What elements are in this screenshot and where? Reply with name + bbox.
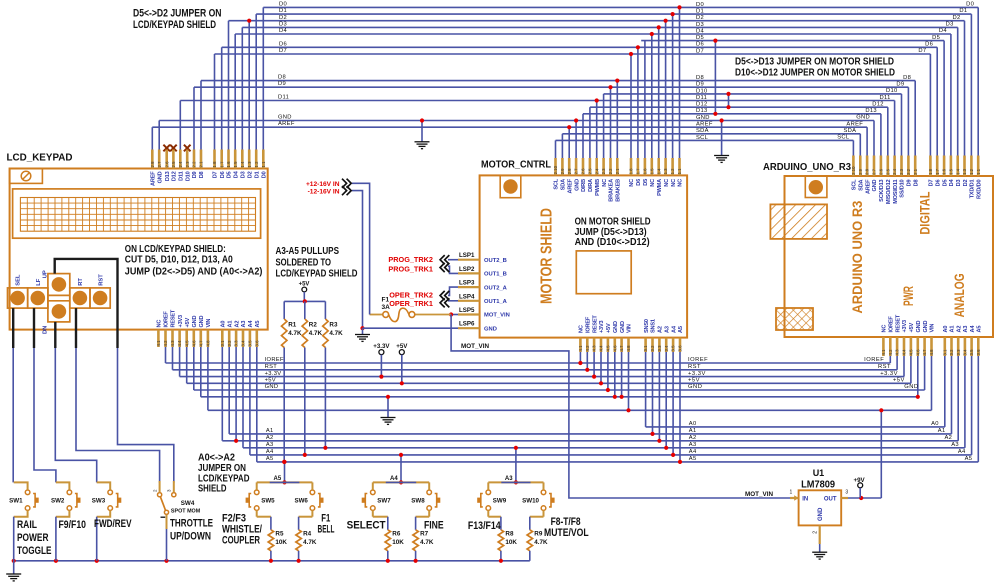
svg-text:RAIL: RAIL [17, 519, 37, 531]
svg-text:3.4: 3.4 [664, 345, 669, 352]
svg-text:OUT1_B: OUT1_B [484, 272, 507, 278]
svg-text:A4: A4 [970, 325, 976, 333]
svg-text:4.7: 4.7 [619, 345, 624, 352]
svg-text:3.4: 3.4 [241, 340, 246, 347]
svg-text:4.3: 4.3 [170, 340, 175, 347]
svg-text:RESET: RESET [895, 314, 901, 332]
svg-text:D3: D3 [956, 180, 962, 187]
svg-text:GND: GND [265, 384, 279, 390]
svg-text:GND: GND [278, 115, 292, 121]
svg-text:OUT: OUT [824, 496, 837, 502]
svg-text:3.2: 3.2 [227, 340, 232, 347]
svg-text:4.5: 4.5 [909, 349, 914, 356]
svg-text:1.1: 1.1 [976, 168, 981, 175]
svg-text:A1: A1 [938, 428, 946, 434]
svg-text:D10<->D12 JUMPER ON MOTOR SHIE: D10<->D12 JUMPER ON MOTOR SHIELD [735, 68, 895, 79]
svg-text:1.7: 1.7 [935, 168, 940, 175]
svg-text:SNS0: SNS0 [644, 319, 650, 333]
svg-text:2.8: 2.8 [865, 168, 870, 175]
svg-text:+3.3V: +3.3V [688, 371, 706, 377]
svg-text:3.3: 3.3 [234, 340, 239, 347]
svg-text:4.1: 4.1 [881, 349, 886, 356]
svg-text:4.3: 4.3 [895, 349, 900, 356]
svg-text:A5: A5 [977, 326, 983, 333]
svg-text:RESET: RESET [171, 309, 177, 327]
svg-text:D5: D5 [932, 35, 940, 41]
svg-text:THROTTLE: THROTTLE [170, 518, 213, 530]
svg-text:SCL: SCL [837, 135, 850, 141]
svg-text:IN: IN [802, 496, 808, 502]
svg-text:A5: A5 [678, 326, 684, 333]
svg-text:+5V: +5V [909, 323, 915, 333]
svg-text:4.7K: 4.7K [329, 330, 343, 337]
svg-text:4.2: 4.2 [585, 345, 590, 352]
svg-text:NC: NC [650, 179, 656, 187]
svg-text:D5: D5 [227, 171, 233, 178]
svg-text:1.8: 1.8 [928, 168, 933, 175]
svg-text:LF: LF [36, 278, 42, 286]
svg-text:+5V: +5V [688, 378, 700, 384]
svg-text:2.10: 2.10 [851, 166, 856, 175]
svg-text:2.8: 2.8 [567, 168, 572, 175]
svg-text:ON LCD/KEYPAD SHIELD:: ON LCD/KEYPAD SHIELD: [125, 244, 226, 255]
svg-text:NC: NC [882, 325, 888, 333]
svg-text:A3: A3 [664, 326, 670, 333]
svg-text:2.6: 2.6 [879, 168, 884, 175]
svg-text:2.5: 2.5 [885, 168, 890, 175]
svg-text:2.8: 2.8 [150, 161, 155, 168]
svg-text:+5V: +5V [185, 318, 191, 328]
svg-text:IOREF: IOREF [265, 357, 284, 363]
svg-text:2.6: 2.6 [164, 161, 169, 168]
svg-text:GND: GND [157, 171, 163, 183]
svg-text:2.2: 2.2 [192, 161, 197, 168]
svg-text:+3.3V: +3.3V [880, 371, 898, 377]
svg-text:BRAKEA: BRAKEA [609, 179, 615, 202]
svg-text:3.2: 3.2 [949, 349, 954, 356]
svg-text:A4: A4 [248, 320, 254, 328]
svg-text:D12: D12 [172, 171, 178, 181]
svg-text:1.3: 1.3 [247, 161, 252, 168]
svg-text:2.9: 2.9 [560, 168, 565, 175]
svg-text:LSP4: LSP4 [459, 293, 475, 300]
svg-text:A3: A3 [689, 442, 697, 448]
svg-text:3.5: 3.5 [671, 345, 676, 352]
svg-text:GND: GND [916, 321, 922, 333]
svg-text:MOT_VIN: MOT_VIN [461, 343, 489, 350]
svg-text:+5V: +5V [606, 323, 612, 333]
svg-text:1.5: 1.5 [233, 161, 238, 168]
svg-text:SW6: SW6 [294, 498, 308, 505]
svg-text:4.7: 4.7 [198, 340, 203, 347]
svg-text:GND: GND [696, 115, 710, 121]
svg-text:IOREF: IOREF [864, 357, 884, 363]
svg-text:RXD/D0: RXD/D0 [976, 180, 982, 199]
svg-text:A2: A2 [956, 326, 962, 333]
svg-text:A4: A4 [266, 449, 274, 455]
svg-text:D7: D7 [213, 171, 219, 178]
svg-text:1: 1 [790, 490, 793, 496]
svg-text:4.6: 4.6 [612, 345, 617, 352]
svg-text:LCD/KEYPAD SHIELD: LCD/KEYPAD SHIELD [276, 269, 358, 280]
svg-text:D2: D2 [952, 15, 960, 21]
svg-text:GND: GND [192, 316, 198, 328]
svg-text:D11: D11 [179, 171, 185, 180]
svg-text:2.7: 2.7 [157, 161, 162, 168]
svg-text:MOTOR SHIELD: MOTOR SHIELD [539, 208, 556, 304]
svg-text:A5: A5 [965, 456, 973, 462]
svg-text:D9: D9 [696, 82, 704, 88]
svg-text:3.6: 3.6 [254, 340, 259, 347]
svg-text:D2: D2 [963, 180, 969, 187]
svg-text:A3: A3 [241, 321, 247, 328]
svg-text:R5: R5 [275, 531, 284, 538]
svg-text:R1: R1 [288, 322, 297, 329]
svg-text:3.6: 3.6 [976, 349, 981, 356]
svg-text:4.5: 4.5 [184, 340, 189, 347]
svg-text:SDA: SDA [696, 128, 709, 134]
svg-text:OUT2_A: OUT2_A [484, 285, 508, 291]
svg-text:1.3: 1.3 [663, 168, 668, 175]
svg-text:FINE: FINE [424, 519, 444, 531]
svg-text:A0<->A2: A0<->A2 [198, 453, 235, 464]
svg-text:3.1: 3.1 [643, 345, 648, 352]
svg-text:D3: D3 [696, 22, 704, 28]
svg-text:4.1: 4.1 [156, 340, 161, 347]
svg-text:4.4: 4.4 [902, 349, 907, 356]
svg-text:JUMP (D2<->D5) AND (A0<->A2): JUMP (D2<->D5) AND (A0<->A2) [125, 266, 263, 277]
svg-text:2.3: 2.3 [899, 168, 904, 175]
svg-text:A0: A0 [221, 321, 227, 328]
svg-text:D8: D8 [199, 171, 205, 178]
svg-text:VIN: VIN [627, 324, 633, 333]
svg-text:D6: D6 [636, 179, 642, 186]
svg-text:SS/D10: SS/D10 [900, 180, 906, 198]
svg-text:D7: D7 [279, 48, 287, 54]
svg-text:BRAKEB: BRAKEB [616, 179, 622, 202]
svg-text:RST: RST [688, 364, 701, 370]
svg-text:4.7K: 4.7K [420, 539, 434, 546]
svg-text:1.1: 1.1 [677, 168, 682, 175]
svg-text:SW9: SW9 [493, 498, 507, 505]
svg-text:D11: D11 [278, 95, 289, 101]
svg-text:GND: GND [923, 321, 929, 333]
svg-text:A5: A5 [255, 321, 261, 328]
svg-text:OPER_TRK1: OPER_TRK1 [389, 299, 433, 308]
svg-text:BELL: BELL [318, 524, 335, 536]
svg-text:D3: D3 [946, 22, 954, 28]
svg-text:4.5: 4.5 [606, 345, 611, 352]
svg-text:3.3: 3.3 [657, 345, 662, 352]
svg-text:+5V: +5V [396, 343, 408, 350]
svg-text:D3: D3 [241, 171, 247, 178]
svg-text:GND: GND [856, 115, 870, 121]
svg-text:UP/DOWN: UP/DOWN [170, 531, 211, 543]
svg-text:PWMB: PWMB [595, 179, 601, 196]
svg-text:D12: D12 [696, 102, 708, 108]
svg-text:AREF: AREF [696, 122, 713, 128]
svg-text:2.9: 2.9 [858, 168, 863, 175]
svg-text:3.1: 3.1 [942, 349, 947, 356]
svg-text:D5<->D2 JUMPER ON: D5<->D2 JUMPER ON [133, 8, 222, 20]
svg-text:3.5: 3.5 [248, 340, 253, 347]
svg-text:DIGITAL: DIGITAL [917, 192, 932, 235]
svg-text:2.6: 2.6 [581, 168, 586, 175]
svg-text:PROG_TRK2: PROG_TRK2 [388, 255, 433, 264]
svg-text:D9: D9 [192, 171, 198, 178]
svg-text:SW5: SW5 [261, 498, 275, 505]
svg-text:D5<->D13 JUMPER ON MOTOR SHIEL: D5<->D13 JUMPER ON MOTOR SHIELD [735, 57, 894, 68]
svg-text:D2: D2 [279, 15, 287, 21]
svg-text:AREF: AREF [846, 121, 863, 127]
svg-text:AREF: AREF [278, 121, 295, 127]
svg-text:2.7: 2.7 [574, 168, 579, 175]
svg-text:1.8: 1.8 [629, 168, 634, 175]
svg-text:1.8: 1.8 [212, 161, 217, 168]
svg-text:SHIELD: SHIELD [198, 484, 227, 495]
svg-text:D5: D5 [942, 180, 948, 187]
svg-text:+9V: +9V [854, 477, 866, 484]
svg-text:D1: D1 [959, 8, 967, 14]
svg-text:2: 2 [813, 531, 819, 534]
svg-text:D1: D1 [279, 8, 287, 14]
svg-text:4.7K: 4.7K [534, 539, 548, 546]
svg-text:D3: D3 [279, 22, 287, 28]
svg-text:1.5: 1.5 [949, 168, 954, 175]
svg-text:RST: RST [98, 274, 104, 286]
svg-text:R6: R6 [392, 531, 401, 538]
svg-text:F9/F10: F9/F10 [59, 519, 87, 531]
svg-text:PWMA: PWMA [657, 179, 663, 196]
svg-text:D6: D6 [220, 171, 226, 178]
svg-text:NC: NC [671, 179, 677, 187]
svg-text:LSP3: LSP3 [459, 280, 475, 287]
svg-text:A1: A1 [266, 428, 274, 434]
svg-text:LSP6: LSP6 [459, 321, 475, 328]
svg-text:OUT1_A: OUT1_A [484, 299, 508, 305]
svg-text:LCD_KEYPAD: LCD_KEYPAD [7, 152, 73, 164]
svg-text:LSP5: LSP5 [459, 307, 475, 314]
svg-text:2.4: 2.4 [178, 161, 183, 168]
svg-text:4.7K: 4.7K [309, 330, 323, 337]
svg-text:D4: D4 [696, 28, 704, 34]
svg-text:NC: NC [629, 179, 635, 187]
svg-text:ANALOG: ANALOG [952, 273, 967, 317]
svg-text:4.1: 4.1 [578, 345, 583, 352]
svg-text:4.3: 4.3 [592, 345, 597, 352]
svg-text:D6: D6 [935, 180, 941, 187]
svg-text:3: 3 [845, 490, 848, 496]
svg-text:2.10: 2.10 [553, 165, 558, 174]
svg-text:D10: D10 [886, 88, 898, 94]
svg-text:2.3: 2.3 [601, 168, 606, 175]
svg-text:3.4: 3.4 [963, 349, 968, 356]
svg-text:A5: A5 [689, 456, 697, 462]
svg-text:2.5: 2.5 [171, 161, 176, 168]
svg-text:A2: A2 [689, 435, 697, 441]
svg-text:2.4: 2.4 [594, 168, 599, 175]
svg-text:LM7809: LM7809 [801, 479, 835, 490]
svg-text:4.4: 4.4 [599, 345, 604, 352]
svg-text:SCL: SCL [554, 178, 560, 189]
svg-text:A3: A3 [266, 442, 274, 448]
svg-text:D11: D11 [696, 95, 707, 101]
svg-text:A4: A4 [958, 449, 966, 455]
svg-text:SCK/D13: SCK/D13 [879, 180, 885, 202]
svg-text:4.8: 4.8 [206, 340, 211, 347]
svg-text:D4: D4 [233, 170, 239, 178]
svg-text:+5V: +5V [265, 378, 276, 384]
svg-text:10K: 10K [392, 539, 404, 546]
svg-text:2.1: 2.1 [199, 161, 204, 168]
svg-text:GND: GND [484, 326, 497, 332]
svg-text:DN: DN [42, 326, 48, 334]
svg-text:MISO/D12: MISO/D12 [886, 180, 892, 205]
svg-text:CUT D5, D10, D12, D13, A0: CUT D5, D10, D12, D13, A0 [125, 254, 233, 265]
svg-text:IOREF: IOREF [889, 316, 895, 333]
svg-text:A3: A3 [963, 326, 969, 333]
svg-text:SW2: SW2 [51, 498, 65, 505]
svg-text:2.3: 2.3 [185, 161, 190, 168]
svg-text:3.6: 3.6 [678, 345, 683, 352]
svg-text:D9: D9 [907, 180, 913, 187]
svg-text:D13: D13 [696, 108, 708, 114]
svg-text:GND: GND [688, 384, 702, 390]
svg-text:GND: GND [199, 316, 205, 328]
svg-text:IOREF: IOREF [688, 357, 708, 363]
svg-text:MOSI/D11: MOSI/D11 [893, 180, 899, 204]
svg-text:4.7: 4.7 [922, 349, 927, 356]
svg-text:SPOT MOM: SPOT MOM [171, 509, 201, 515]
svg-text:R8: R8 [505, 531, 514, 538]
svg-text:A5: A5 [274, 476, 282, 482]
svg-text:AREF: AREF [151, 171, 157, 186]
svg-text:A1: A1 [689, 428, 697, 434]
svg-text:SW3: SW3 [92, 498, 106, 505]
svg-text:D13: D13 [865, 108, 877, 114]
svg-text:D8: D8 [278, 75, 286, 81]
svg-text:1.6: 1.6 [226, 161, 231, 168]
svg-text:GND: GND [904, 384, 918, 390]
svg-text:D8: D8 [903, 75, 911, 81]
svg-text:D2: D2 [696, 15, 704, 21]
svg-text:D4: D4 [949, 179, 955, 187]
svg-text:D13: D13 [165, 171, 171, 181]
svg-text:A4: A4 [390, 476, 398, 482]
svg-text:D9: D9 [896, 82, 904, 88]
svg-text:LSP2: LSP2 [459, 266, 475, 273]
svg-text:1.4: 1.4 [656, 168, 661, 175]
svg-text:4.6: 4.6 [191, 340, 196, 347]
svg-text:4.2: 4.2 [163, 340, 168, 347]
svg-text:4.6: 4.6 [915, 349, 920, 356]
svg-text:+5V: +5V [893, 378, 905, 384]
svg-text:3.1: 3.1 [220, 340, 225, 347]
svg-text:A2: A2 [944, 435, 952, 441]
svg-text:RT: RT [78, 278, 84, 286]
svg-text:D11: D11 [879, 95, 890, 101]
svg-text:OUT2_B: OUT2_B [484, 258, 507, 264]
svg-text:D8: D8 [913, 180, 919, 187]
svg-text:R3: R3 [329, 322, 338, 329]
svg-text:VIN: VIN [206, 319, 212, 328]
svg-text:MOT_VIN: MOT_VIN [745, 491, 773, 498]
svg-text:POWER: POWER [17, 532, 49, 544]
svg-text:U1: U1 [813, 468, 825, 478]
svg-text:SW4: SW4 [181, 500, 195, 507]
svg-text:A3: A3 [505, 476, 513, 482]
svg-text:D9: D9 [278, 81, 286, 87]
svg-text:COUPLER: COUPLER [222, 535, 260, 547]
svg-text:-12-16V IN: -12-16V IN [308, 188, 340, 195]
svg-text:SCL: SCL [696, 135, 709, 141]
svg-text:LSP1: LSP1 [459, 252, 475, 259]
svg-text:A4: A4 [689, 449, 697, 455]
svg-text:2.1: 2.1 [615, 168, 620, 175]
svg-text:SELECT: SELECT [347, 519, 386, 531]
svg-text:1.4: 1.4 [240, 161, 245, 168]
svg-text:2.5: 2.5 [588, 168, 593, 175]
svg-text:D6: D6 [925, 42, 933, 48]
svg-text:1.6: 1.6 [942, 168, 947, 175]
svg-text:1.6: 1.6 [643, 168, 648, 175]
svg-text:A2: A2 [234, 321, 240, 328]
svg-text:SW10: SW10 [522, 498, 539, 505]
svg-text:F13/F14: F13/F14 [468, 520, 501, 532]
svg-text:3.2: 3.2 [650, 345, 655, 352]
svg-text:D6: D6 [696, 42, 704, 48]
svg-text:ARDUINO UNO R3: ARDUINO UNO R3 [849, 200, 865, 313]
svg-text:+3.3V: +3.3V [373, 343, 390, 350]
svg-text:1.4: 1.4 [955, 168, 960, 175]
svg-text:D7: D7 [929, 180, 935, 187]
svg-text:2.2: 2.2 [906, 168, 911, 175]
svg-text:SOLDERED TO: SOLDERED TO [276, 258, 332, 269]
svg-text:+3V3: +3V3 [902, 320, 908, 333]
svg-text:D7: D7 [696, 48, 704, 54]
svg-text:D12: D12 [872, 101, 884, 107]
svg-text:3A: 3A [382, 304, 391, 311]
svg-text:D4: D4 [279, 28, 287, 34]
svg-text:A5: A5 [266, 456, 274, 462]
svg-text:10K: 10K [505, 539, 517, 546]
svg-text:+3V3: +3V3 [178, 315, 184, 328]
svg-text:GND: GND [872, 179, 878, 191]
svg-text:+12-16V IN: +12-16V IN [306, 181, 340, 188]
svg-text:AREF: AREF [567, 178, 573, 193]
svg-text:LCD/KEYPAD SHIELD: LCD/KEYPAD SHIELD [133, 19, 216, 31]
svg-text:RST: RST [265, 364, 278, 370]
svg-text:GND: GND [613, 321, 619, 333]
svg-text:MOT_VIN: MOT_VIN [484, 313, 510, 319]
svg-text:GND: GND [620, 321, 626, 333]
svg-text:A0: A0 [943, 326, 949, 333]
svg-text:FWD/REV: FWD/REV [94, 518, 132, 530]
svg-text:1.2: 1.2 [969, 168, 974, 175]
svg-text:IOREF: IOREF [586, 316, 592, 333]
svg-text:1.5: 1.5 [649, 168, 654, 175]
svg-text:IOREF: IOREF [164, 311, 170, 328]
svg-text:SDA: SDA [843, 128, 856, 134]
svg-text:DIRA: DIRA [588, 179, 594, 192]
svg-text:RST: RST [878, 364, 891, 370]
svg-text:D0: D0 [966, 2, 974, 8]
svg-text:D5: D5 [643, 179, 649, 186]
svg-text:D0: D0 [262, 171, 268, 178]
svg-text:4.8: 4.8 [626, 345, 631, 352]
svg-text:PROG_TRK1: PROG_TRK1 [388, 264, 433, 273]
svg-text:SW1: SW1 [9, 498, 23, 505]
